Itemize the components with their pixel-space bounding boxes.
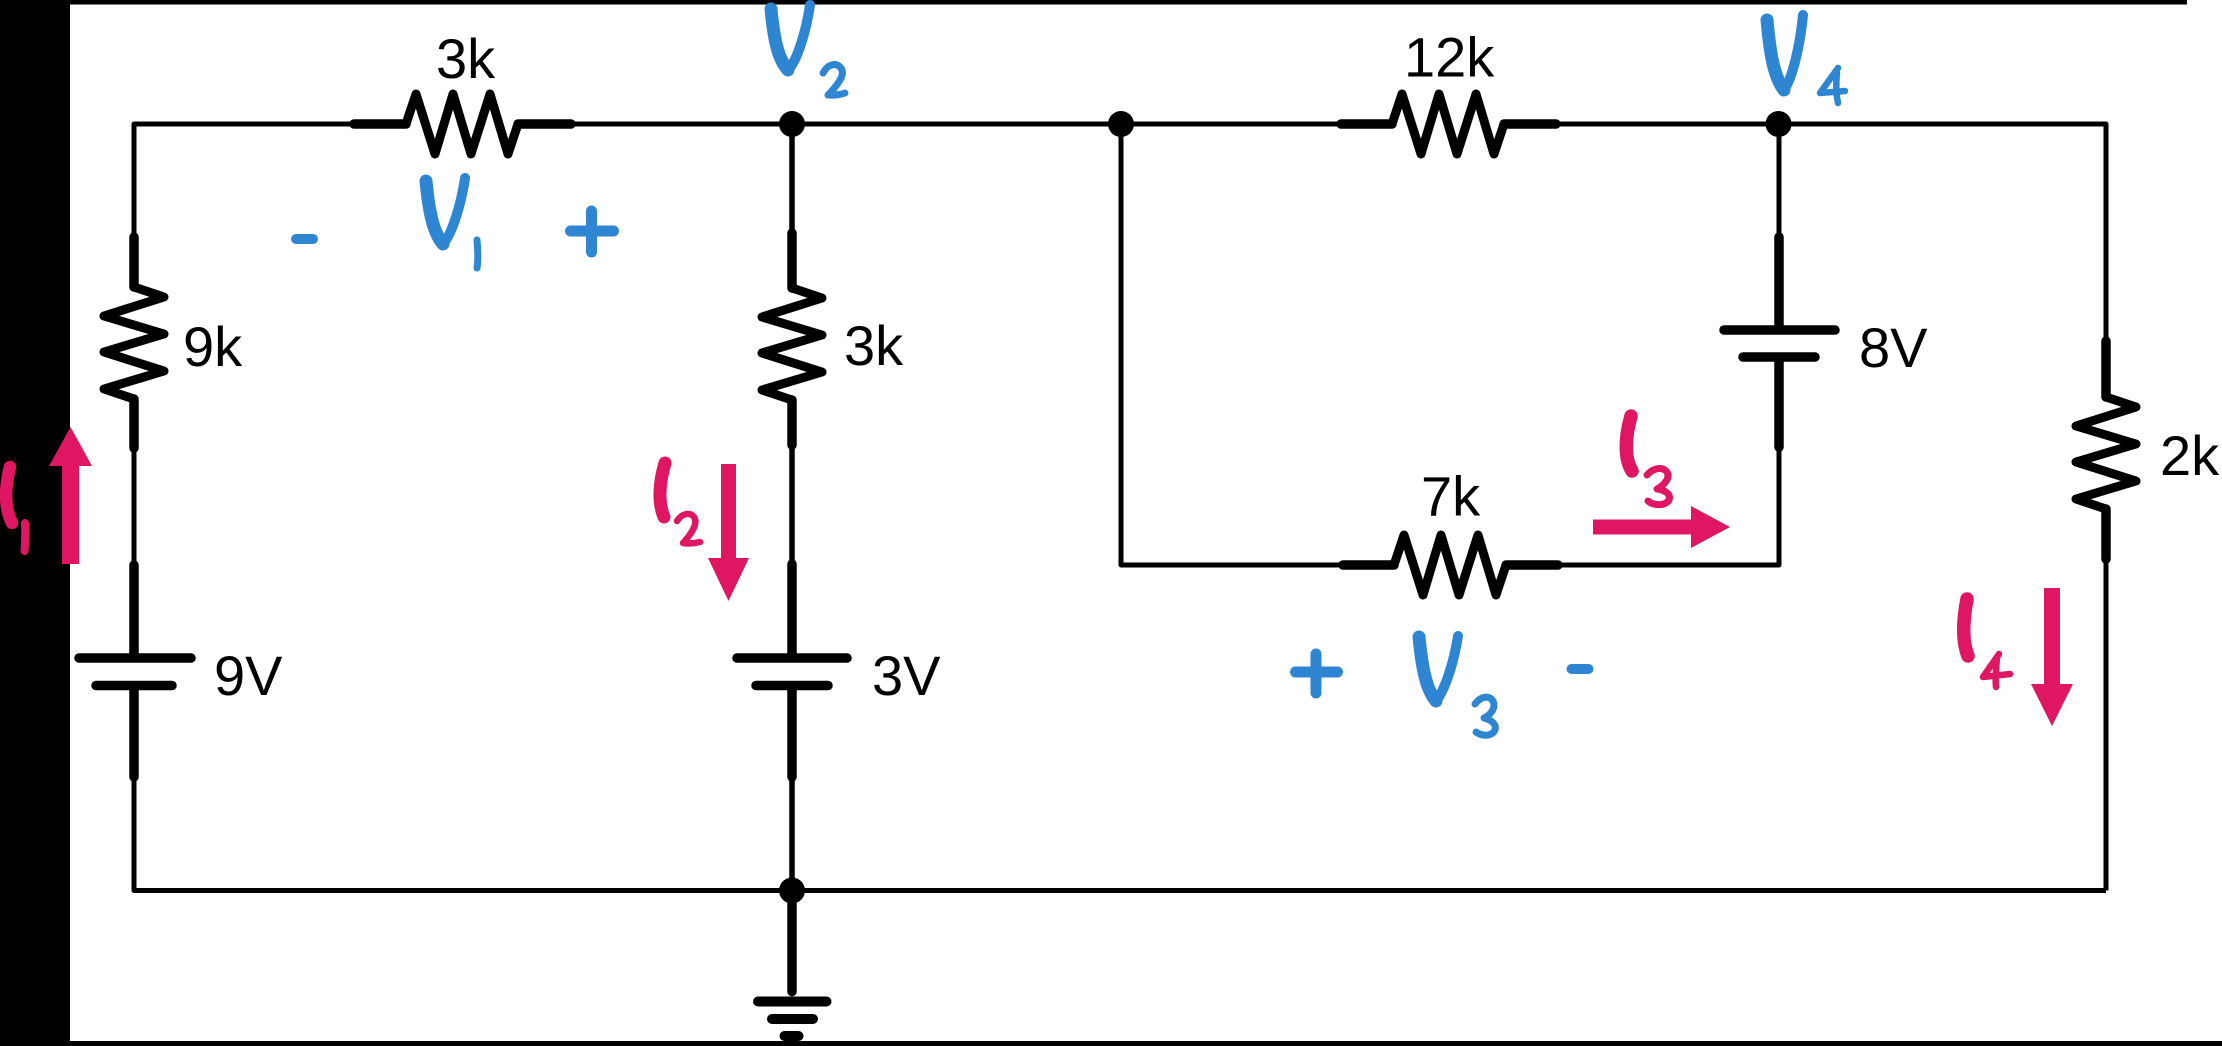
battery B2 3V: plates: [737, 653, 847, 663]
label minus of V3: [1572, 664, 1589, 674]
wire: 8V up to V4 node: [1777, 124, 1782, 237]
pink current annotations: [6, 416, 2010, 687]
svg-text:3k: 3k: [436, 27, 496, 90]
svg-text:7k: 7k: [1421, 465, 1481, 528]
battery B1 9V: top lead: [129, 565, 139, 653]
battery B2 3V: top lead: [787, 564, 797, 653]
wire top: 3k to 12k: [572, 122, 1342, 127]
node V2 dot: [779, 111, 805, 137]
resistor R5 7k: leads: [1343, 560, 1558, 570]
battery B3 8V: plates: [1743, 352, 1815, 362]
wire: 3V to bottom node: [789, 778, 795, 891]
svg-text:8V: 8V: [1859, 316, 1928, 379]
label I4: [1964, 599, 1968, 656]
label V4: [1767, 20, 1784, 90]
value labels: [183, 26, 2220, 708]
wire: 9V to bottom-left corner: [134, 778, 2106, 891]
label I1: [6, 467, 12, 523]
svg-text:9V: 9V: [214, 644, 283, 707]
svg-text:3k: 3k: [844, 314, 904, 377]
resistor R3 12k: leads: [1341, 119, 1556, 129]
resistor R1 3k top: leads: [354, 119, 571, 129]
arrow I3: [1593, 520, 1693, 535]
wire: 7k to inner loop right corner: [1559, 450, 1779, 565]
arrow I4: [2044, 588, 2060, 688]
ground: bars: [758, 997, 827, 1007]
wire: junction down and inner loop bottom left: [1121, 124, 1344, 565]
resistor R1 3k top: zigzag: [406, 94, 518, 154]
svg-text:12k: 12k: [1404, 26, 1495, 89]
node V4 dot: [1766, 111, 1792, 137]
ground: stub: [787, 891, 797, 992]
border frame: [0, 0, 70, 1046]
label I2: [660, 463, 665, 517]
label V2: [771, 9, 788, 70]
svg-text:3V: 3V: [872, 644, 941, 707]
arrow I2: [721, 464, 736, 560]
wire: 3k to 3V: [789, 446, 795, 564]
battery B3 8V: top lead: [1774, 237, 1784, 325]
node junction dot: [1108, 111, 1134, 137]
resistor R4 3k middle: leads: [787, 233, 797, 445]
label plus of V3: [1296, 654, 1338, 693]
svg-text:9k: 9k: [183, 315, 243, 378]
arrow I1: [62, 458, 79, 564]
wire: V2 node down to 3k: [789, 124, 795, 233]
label V3: [1419, 637, 1436, 701]
battery B2 3V: bottom lead: [787, 690, 797, 777]
label V1: [426, 181, 443, 244]
resistor R6 2k: leads: [2101, 341, 2111, 559]
resistor R2 9k: zigzag: [104, 287, 164, 399]
resistor R3 12k: zigzag: [1392, 94, 1504, 154]
wire top-left corner: [134, 124, 355, 245]
svg-text:2k: 2k: [2160, 424, 2220, 487]
label plus of V1: [571, 211, 614, 252]
resistor R4 3k middle: zigzag: [762, 288, 822, 400]
label I3: [1626, 416, 1632, 471]
blue handwritten annotations: [296, 5, 1845, 735]
wire: 2k to bottom-right corner: [2104, 560, 2109, 891]
wire: 9k to 9V: [132, 449, 137, 565]
resistor R5 7k: zigzag: [1394, 535, 1506, 595]
label minus of V1: [296, 234, 313, 244]
battery B1 9V: bottom lead: [129, 690, 139, 777]
wire top: 12k to top-right corner: [1557, 124, 2106, 340]
resistor R6 2k: zigzag: [2076, 397, 2136, 509]
battery B1 9V: plates: [79, 653, 191, 663]
battery B3 8V: bottom lead: [1774, 362, 1784, 447]
node ground dot: [779, 878, 805, 904]
resistor R2 9k: leads: [129, 237, 139, 448]
